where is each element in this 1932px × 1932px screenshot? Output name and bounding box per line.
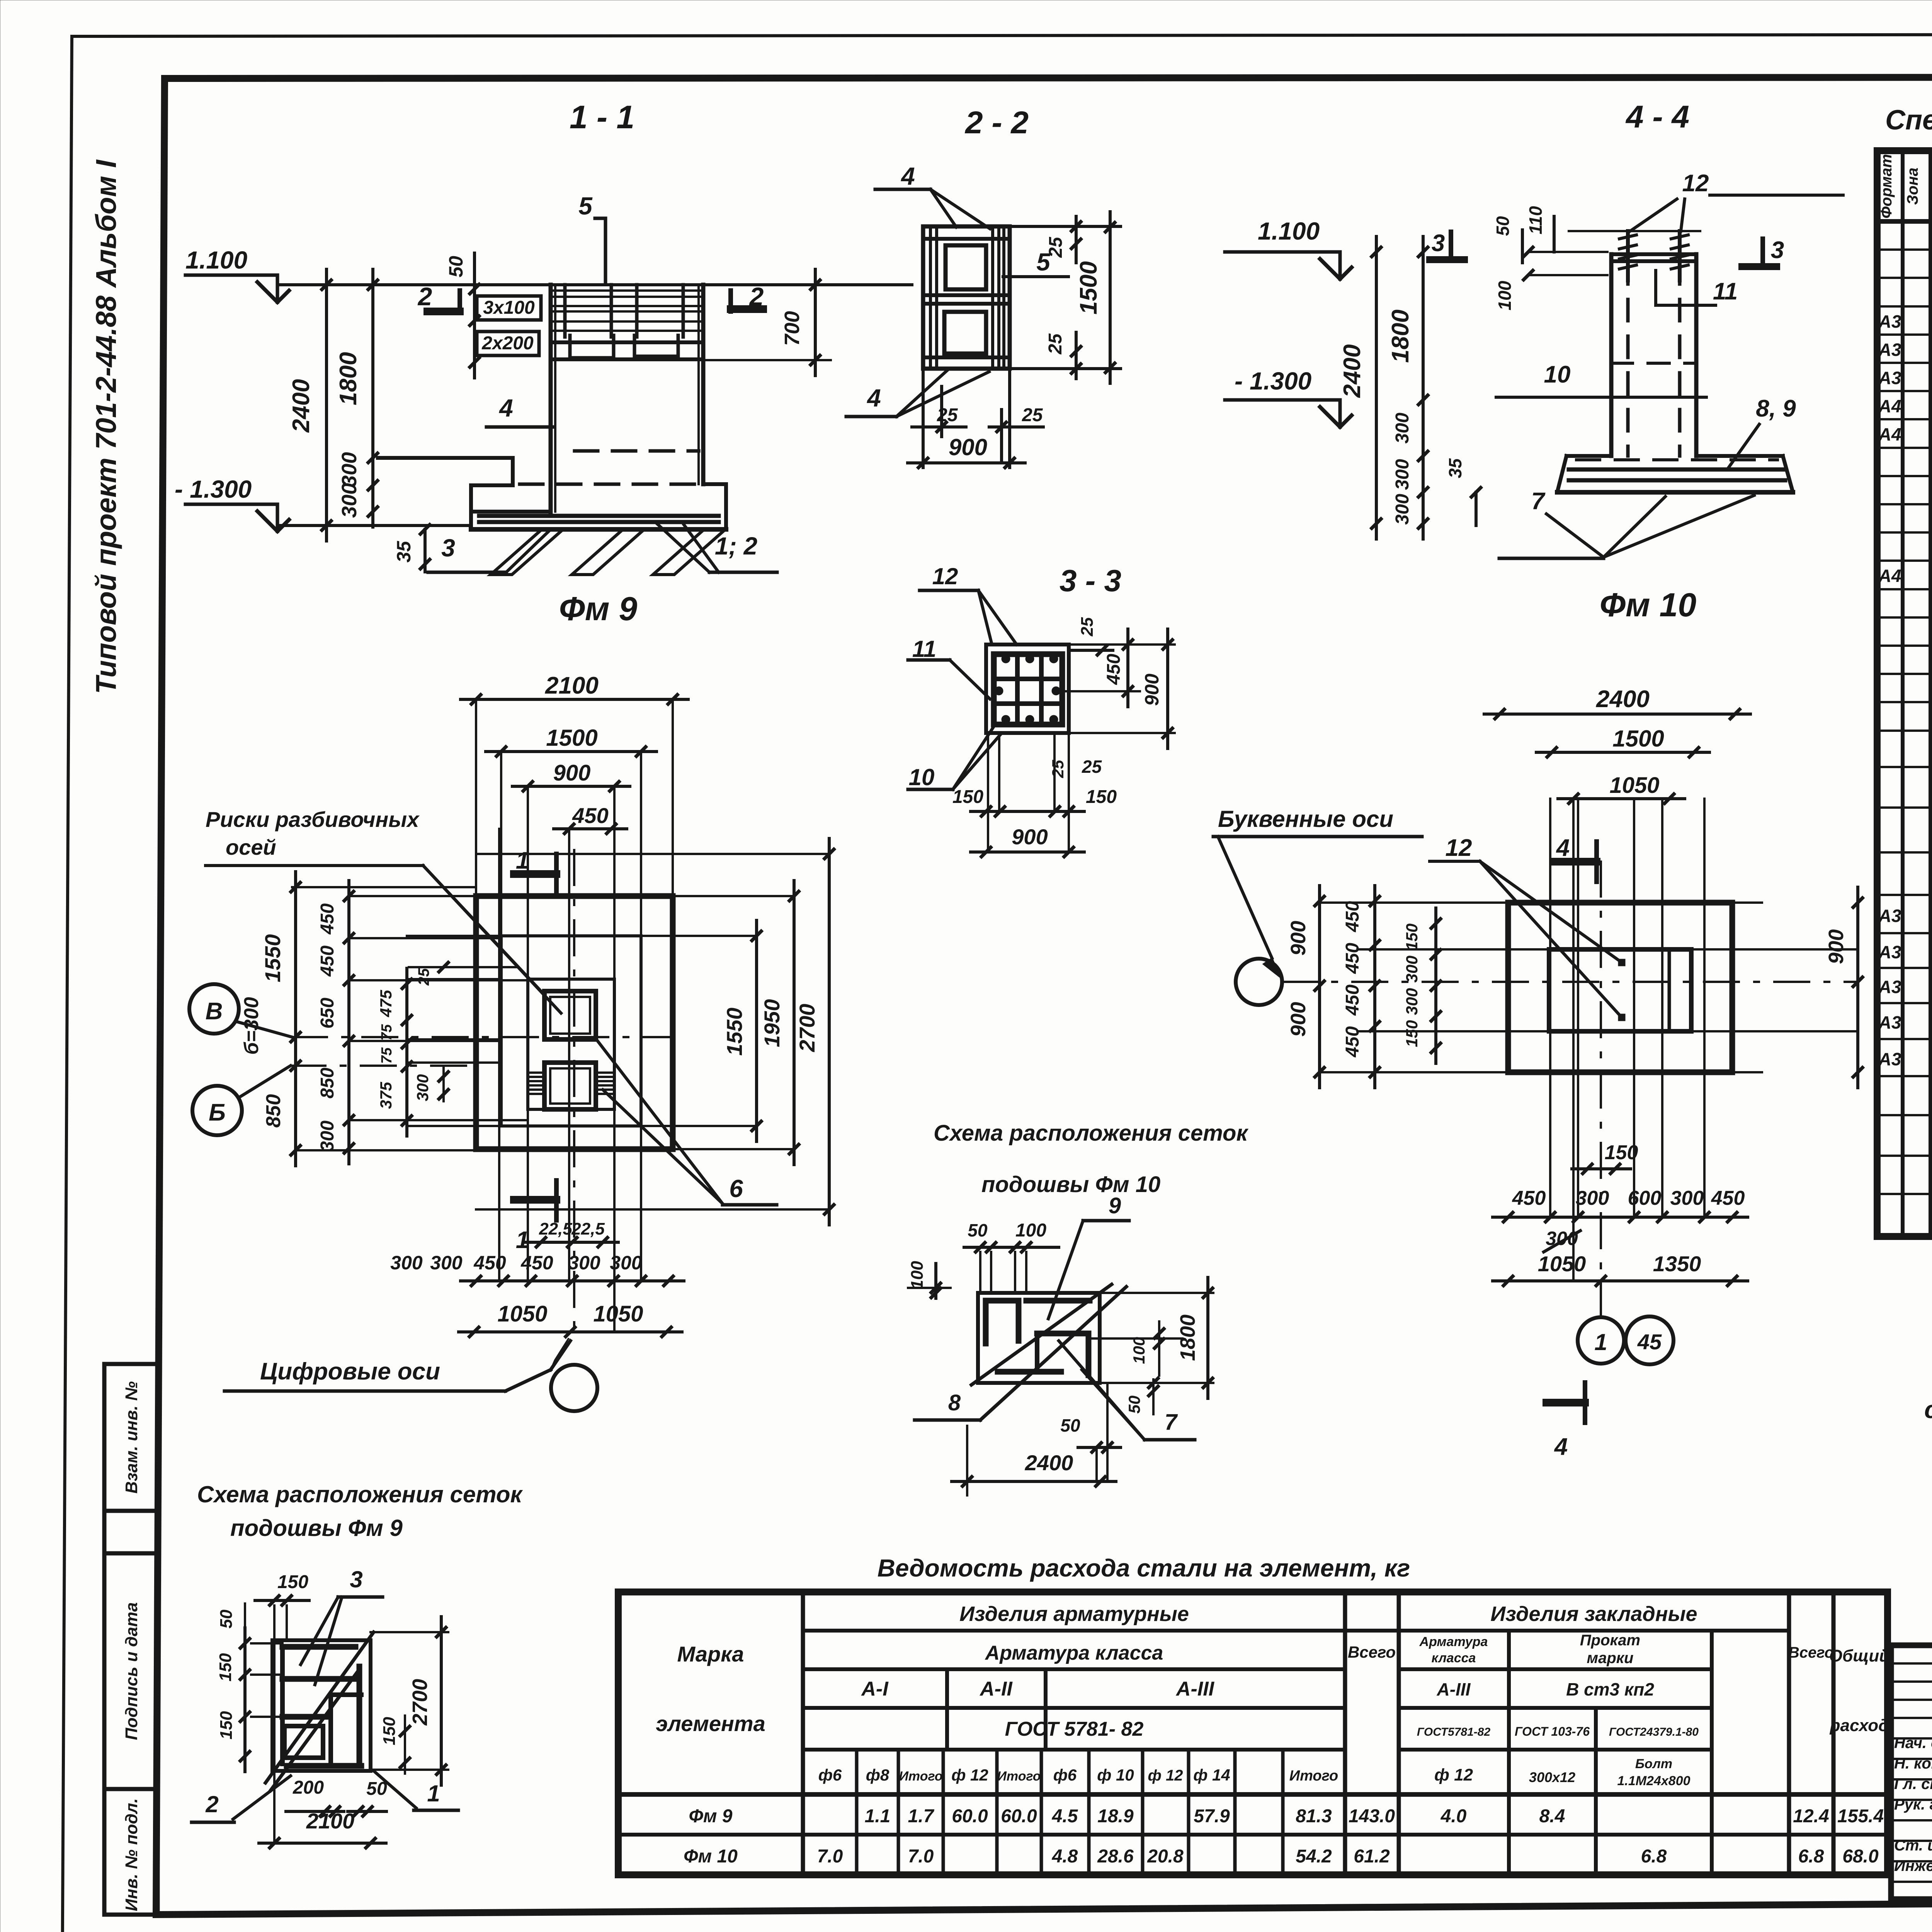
plan fm9 grid verticals (498, 829, 500, 1281)
plan fm10 left dims (1318, 886, 1321, 1088)
svg-text:1: 1 (1594, 1329, 1607, 1355)
svg-text:900: 900 (1825, 929, 1848, 964)
svg-text:1.7: 1.7 (908, 1806, 935, 1827)
svg-text:А3: А3 (1878, 942, 1901, 962)
svg-text:8: 8 (948, 1390, 961, 1415)
svg-text:Нач. отд.: Нач. отд. (1894, 1735, 1932, 1752)
svg-text:450: 450 (1711, 1187, 1745, 1209)
svg-text:300х12: 300х12 (1529, 1769, 1575, 1785)
svg-text:11: 11 (912, 636, 936, 662)
column 1-1 (549, 285, 553, 512)
plan fm9 column squares (544, 991, 596, 1039)
svg-text:ф6: ф6 (818, 1766, 842, 1784)
svg-text:150: 150 (1403, 923, 1421, 951)
dim 2400 4-4 (1375, 236, 1378, 539)
svg-text:7.0: 7.0 (817, 1846, 843, 1867)
spec table row lines (1877, 248, 1932, 251)
svg-text:12: 12 (932, 563, 958, 589)
svg-text:25: 25 (415, 968, 432, 986)
scheme fm9 diagonals (265, 1632, 374, 1783)
svg-text:1.100: 1.100 (1258, 217, 1320, 245)
svg-text:35: 35 (393, 541, 415, 563)
svg-text:850: 850 (262, 1094, 285, 1128)
svg-text:1050: 1050 (1609, 773, 1659, 798)
svg-text:54.2: 54.2 (1296, 1846, 1332, 1867)
svg-text:7.0: 7.0 (908, 1846, 934, 1867)
svg-text:Изделия закладные: Изделия закладные (1490, 1602, 1697, 1626)
svg-text:А3: А3 (1878, 368, 1901, 388)
hatch pads (528, 1071, 544, 1074)
svg-text:450: 450 (317, 946, 338, 977)
svg-text:1; 2: 1; 2 (715, 532, 757, 560)
svg-text:1350: 1350 (1653, 1252, 1701, 1276)
svg-text:375: 375 (377, 1082, 395, 1109)
svg-text:25: 25 (937, 405, 958, 425)
svg-text:25: 25 (1078, 617, 1097, 636)
svg-text:Фм 9: Фм 9 (559, 590, 638, 628)
svg-text:300: 300 (1392, 494, 1413, 525)
svg-text:68.0: 68.0 (1842, 1846, 1879, 1867)
axis circle 1 (1578, 1317, 1624, 1364)
svg-text:7: 7 (1531, 488, 1546, 515)
scheme fm9 mesh bars (282, 1644, 355, 1650)
svg-text:2100: 2100 (306, 1809, 355, 1833)
svg-text:150: 150 (380, 1717, 399, 1745)
svg-text:4: 4 (1556, 835, 1570, 861)
svg-text:4: 4 (866, 384, 881, 412)
svg-text:60.0: 60.0 (1001, 1806, 1037, 1827)
svg-text:50: 50 (1125, 1396, 1143, 1414)
svg-text:50: 50 (1060, 1415, 1080, 1435)
svg-text:А3: А3 (1878, 311, 1901, 332)
svg-text:12.4: 12.4 (1793, 1806, 1829, 1827)
plan fm9 grid horizontals (407, 935, 501, 937)
svg-text:155.4: 155.4 (1837, 1806, 1884, 1827)
svg-text:900: 900 (949, 434, 987, 460)
svg-text:100: 100 (1015, 1220, 1046, 1241)
mesh bars fm10 (983, 1301, 989, 1344)
anchor bolts 1-1 (563, 285, 567, 337)
svg-text:35: 35 (1445, 458, 1465, 478)
svg-text:11: 11 (1713, 278, 1738, 305)
plan fm10 outer footing (1508, 903, 1732, 1072)
svg-text:5: 5 (578, 192, 593, 220)
svg-text:ф 14: ф 14 (1193, 1766, 1230, 1784)
svg-text:450: 450 (520, 1252, 553, 1274)
svg-text:850: 850 (317, 1068, 338, 1099)
svg-text:В ст3 кп2: В ст3 кп2 (1566, 1679, 1654, 1699)
axis circle B (192, 1086, 242, 1135)
dims bottom 3-3 (998, 733, 1000, 811)
svg-text:61.2: 61.2 (1354, 1846, 1390, 1867)
svg-text:Буквенные оси: Буквенные оси (1218, 806, 1393, 832)
svg-text:900: 900 (1287, 1002, 1310, 1037)
svg-text:450: 450 (473, 1252, 506, 1274)
svg-text:8.4: 8.4 (1539, 1806, 1565, 1827)
svg-text:Взам. инв. №: Взам. инв. № (122, 1381, 141, 1494)
svg-text:150: 150 (1605, 1141, 1638, 1164)
svg-text:450: 450 (1342, 1026, 1363, 1058)
svg-text:А4: А4 (1878, 566, 1901, 586)
svg-text:4: 4 (1554, 1434, 1568, 1460)
svg-text:300: 300 (413, 1074, 432, 1101)
svg-text:Арматура класса: Арматура класса (985, 1642, 1163, 1664)
svg-text:200: 200 (293, 1777, 324, 1798)
svg-text:2700: 2700 (795, 1004, 819, 1053)
spec table frame (1877, 151, 1932, 1236)
svg-text:300: 300 (1403, 956, 1421, 983)
svg-text:1500: 1500 (1612, 726, 1664, 752)
svg-text:1050: 1050 (1538, 1252, 1586, 1276)
svg-text:Б: Б (209, 1099, 226, 1126)
svg-text:110: 110 (1526, 206, 1546, 235)
svg-text:450: 450 (1342, 943, 1363, 974)
svg-text:- 1.300: - 1.300 (175, 475, 252, 503)
svg-text:300: 300 (568, 1252, 600, 1274)
svg-text:4.8: 4.8 (1052, 1846, 1078, 1867)
svg-text:150: 150 (217, 1711, 236, 1740)
svg-text:12: 12 (1682, 170, 1709, 197)
svg-text:300: 300 (1546, 1228, 1578, 1249)
dim 2400 fm10scheme (952, 1480, 1116, 1483)
svg-text:60.0: 60.0 (952, 1806, 988, 1827)
svg-text:450: 450 (1342, 985, 1363, 1016)
svg-text:1550: 1550 (260, 934, 285, 983)
plan fm9 inner rects (501, 936, 641, 1126)
plan fm10 bottom dims (1572, 1167, 1631, 1170)
svg-text:600: 600 (1628, 1187, 1662, 1209)
svg-text:Рук. гр.: Рук. гр. (1894, 1796, 1932, 1813)
dims bottom 2-2 (922, 369, 925, 468)
svg-text:Фм 10: Фм 10 (1600, 587, 1696, 624)
svg-text:ГОСТ 103-76: ГОСТ 103-76 (1515, 1725, 1590, 1738)
svg-text:Ст. инж.: Ст. инж. (1894, 1837, 1932, 1854)
plan fm9 bottom dims (526, 1241, 618, 1244)
svg-text:12: 12 (1446, 835, 1472, 861)
svg-text:25: 25 (1082, 757, 1102, 777)
svg-text:1 - 1: 1 - 1 (570, 99, 634, 135)
svg-text:450: 450 (572, 803, 608, 828)
svg-text:ф 12: ф 12 (951, 1766, 988, 1784)
svg-text:3: 3 (350, 1566, 362, 1592)
svg-text:класса: класса (1432, 1651, 1476, 1665)
svg-text:22,5: 22,5 (539, 1219, 572, 1238)
3x100 2x200 boxes (473, 274, 476, 378)
svg-text:4: 4 (900, 162, 915, 190)
svg-text:10: 10 (1544, 361, 1571, 388)
svg-text:А-I: А-I (861, 1678, 889, 1700)
svg-text:22,5: 22,5 (571, 1219, 605, 1238)
svg-text:2400: 2400 (1339, 344, 1366, 398)
svg-text:650: 650 (317, 998, 338, 1029)
footing rebar 1-1 (479, 514, 719, 518)
svg-text:300: 300 (317, 1121, 338, 1151)
svg-text:8, 9: 8, 9 (1756, 395, 1796, 422)
svg-text:ГОСТ24379.1-80: ГОСТ24379.1-80 (1609, 1726, 1699, 1738)
svg-text:300: 300 (1403, 988, 1421, 1015)
svg-text:6.8: 6.8 (1798, 1846, 1824, 1867)
stamp boxes left margin (104, 1364, 158, 1915)
svg-text:900: 900 (1012, 825, 1048, 849)
dim 2700 fm9scheme (440, 1617, 443, 1785)
svg-text:подошвы Фм 9: подошвы Фм 9 (230, 1515, 403, 1541)
svg-text:элемента: элемента (656, 1711, 765, 1736)
cut mark 4 bottom (1546, 1399, 1585, 1406)
svg-text:А3: А3 (1878, 906, 1901, 926)
svg-text:Схема расположения сеток: Схема расположения сеток (934, 1121, 1248, 1146)
plan fm9 left dim chains (294, 872, 297, 1166)
svg-text:150: 150 (1403, 1020, 1421, 1047)
svg-text:300: 300 (1670, 1187, 1704, 1209)
svg-text:2400: 2400 (1025, 1451, 1073, 1475)
svg-text:2 - 2: 2 - 2 (964, 105, 1029, 140)
svg-text:А-III: А-III (1175, 1678, 1215, 1700)
mesh diagonals 8 (971, 1284, 1112, 1385)
svg-text:18.9: 18.9 (1097, 1806, 1134, 1827)
level baseline 1-1 (277, 283, 912, 286)
scheme fm9 mesh outline (272, 1640, 371, 1771)
svg-text:Инв. № подл.: Инв. № подл. (122, 1798, 141, 1911)
svg-text:1.1М24х800: 1.1М24х800 (1617, 1774, 1690, 1788)
svg-text:50: 50 (968, 1220, 988, 1240)
svg-text:ф8: ф8 (866, 1766, 889, 1784)
svg-text:1800: 1800 (335, 352, 362, 405)
cut mark 4 top (1554, 858, 1597, 866)
svg-text:25: 25 (1022, 405, 1043, 425)
svg-text:1: 1 (516, 1227, 529, 1253)
svg-text:Всего: Всего (1348, 1643, 1396, 1661)
svg-text:450: 450 (1342, 901, 1363, 932)
svg-text:300: 300 (430, 1252, 463, 1274)
svg-text:Фм 10: Фм 10 (684, 1846, 738, 1867)
svg-text:подошвы Фм 10: подошвы Фм 10 (981, 1172, 1160, 1197)
svg-text:150: 150 (1086, 787, 1117, 807)
svg-text:2700: 2700 (408, 1679, 432, 1726)
svg-text:100: 100 (1130, 1337, 1148, 1364)
svg-text:4.0: 4.0 (1440, 1806, 1467, 1827)
title block signatures grid (1891, 1645, 1932, 1899)
svg-text:6: 6 (729, 1175, 743, 1202)
svg-text:Типовой проект 701-2-44.88: Типовой проект 701-2-44.88 Альбом I (90, 159, 122, 694)
svg-text:1: 1 (427, 1781, 440, 1806)
svg-text:Изделия арматурные: Изделия арматурные (959, 1602, 1189, 1626)
svg-text:Фм 9: Фм 9 (689, 1806, 732, 1827)
svg-text:Итого: Итого (1289, 1768, 1338, 1784)
svg-text:3: 3 (1432, 230, 1445, 257)
svg-text:1.1: 1.1 (865, 1806, 891, 1827)
plan fm9 right dim chains (755, 920, 758, 1141)
svg-text:143.0: 143.0 (1349, 1806, 1395, 1827)
svg-text:300: 300 (1392, 413, 1413, 444)
svg-text:300: 300 (610, 1252, 642, 1274)
svg-text:А4: А4 (1878, 424, 1901, 444)
dim 1800 right (1100, 1292, 1213, 1294)
extension lines left fm9 (292, 886, 476, 888)
svg-text:1800: 1800 (1387, 310, 1414, 363)
svg-text:50: 50 (445, 256, 467, 277)
svg-text:А3: А3 (1878, 1012, 1901, 1032)
svg-text:Прокат: Прокат (1580, 1632, 1640, 1649)
dim 700 right (814, 269, 817, 376)
svg-text:Подпись и дата: Подпись и дата (122, 1602, 141, 1740)
svg-text:81.3: 81.3 (1296, 1806, 1332, 1827)
svg-text:марки: марки (1587, 1650, 1634, 1667)
cut mark 1 top plan fm9 (514, 870, 556, 878)
dim chain 2400 section 1-1 (325, 269, 328, 541)
svg-text:700: 700 (781, 311, 804, 346)
svg-text:475: 475 (377, 990, 395, 1017)
svg-text:300: 300 (338, 483, 361, 518)
svg-text:25: 25 (1045, 333, 1066, 355)
svg-text:3: 3 (1771, 237, 1784, 264)
svg-text:1550: 1550 (722, 1008, 747, 1056)
letter axis circle (1236, 959, 1282, 1005)
svg-text:300: 300 (338, 452, 361, 487)
svg-text:Спецификация на монолитные: Спецификация на монолитные фундаменты Фм… (1885, 105, 1932, 136)
svg-text:ГОСТ5781-82: ГОСТ5781-82 (1417, 1726, 1491, 1738)
svg-text:Цифровые оси: Цифровые оси (260, 1358, 440, 1385)
bolt hooks (570, 335, 614, 358)
svg-text:А4: А4 (1878, 396, 1901, 416)
svg-text:Н. контр.: Н. контр. (1894, 1755, 1932, 1772)
svg-text:А-II: А-II (979, 1678, 1013, 1700)
plan fm10 grid horizontals (1357, 948, 1858, 951)
vedomost frame (618, 1592, 1888, 1875)
svg-text:Марка: Марка (677, 1642, 744, 1666)
axis circle 45 (1626, 1316, 1673, 1364)
footing 4-4 (1566, 454, 1611, 458)
svg-text:20.8: 20.8 (1147, 1846, 1184, 1867)
svg-text:450: 450 (1512, 1187, 1546, 1209)
svg-text:ф 12: ф 12 (1434, 1765, 1473, 1784)
svg-text:ф6: ф6 (1053, 1766, 1077, 1784)
plan fm9 top dims (461, 698, 688, 701)
mesh marks under footing (491, 530, 562, 575)
dim chain 1800/300/300 (371, 269, 374, 527)
plan fm10 inner rect (1549, 949, 1691, 1031)
svg-text:900: 900 (1141, 673, 1163, 706)
svg-text:300: 300 (1392, 459, 1413, 490)
svg-text:Общий: Общий (1829, 1646, 1889, 1665)
svg-text:Инженер: Инженер (1894, 1857, 1932, 1874)
svg-text:Схема расположения сеток: Схема расположения сеток (197, 1481, 523, 1507)
svg-text:50: 50 (217, 1609, 236, 1628)
svg-text:1050: 1050 (497, 1301, 547, 1327)
svg-text:2х200: 2х200 (481, 333, 534, 354)
axis B line (291, 1065, 476, 1067)
svg-text:28.6: 28.6 (1097, 1846, 1134, 1867)
svg-text:3: 3 (441, 534, 455, 562)
svg-text:450: 450 (1104, 654, 1124, 685)
svg-text:900: 900 (553, 760, 591, 786)
svg-text:ф 12: ф 12 (1148, 1767, 1183, 1784)
right dim 900 fm10 (1856, 887, 1859, 1088)
axis circle V (189, 984, 239, 1034)
svg-text:100: 100 (908, 1261, 927, 1289)
svg-text:Гл. спец.: Гл. спец. (1894, 1776, 1932, 1793)
cut mark 1 bottom plan fm9 (514, 1196, 556, 1204)
svg-text:слой, указанный на чертеже.: слой, указанный на чертеже. (1924, 1396, 1932, 1423)
svg-text:45: 45 (1637, 1330, 1662, 1354)
svg-text:10: 10 (909, 764, 935, 790)
svg-text:150: 150 (952, 787, 983, 807)
svg-text:А3: А3 (1878, 977, 1901, 997)
axis V line (292, 1036, 673, 1038)
svg-text:б=300: б=300 (240, 997, 263, 1054)
svg-text:Итого: Итого (997, 1769, 1041, 1784)
svg-text:3 - 3: 3 - 3 (1060, 563, 1121, 598)
bolt cage 3-3 (994, 654, 1062, 724)
svg-text:4: 4 (498, 394, 513, 422)
svg-text:450: 450 (317, 903, 338, 935)
svg-text:2: 2 (417, 282, 432, 311)
svg-text:осей: осей (226, 835, 276, 859)
svg-text:Формат: Формат (1878, 154, 1895, 219)
svg-text:2400: 2400 (1596, 686, 1650, 713)
svg-text:3х100: 3х100 (483, 298, 535, 318)
hidden edges dashed 1-1 (575, 449, 699, 453)
svg-text:2: 2 (205, 1791, 218, 1817)
svg-text:Болт: Болт (1635, 1757, 1672, 1771)
svg-text:Зона: Зона (1904, 168, 1921, 205)
dims 1800/300x3 (1422, 236, 1425, 539)
svg-text:900: 900 (1287, 921, 1310, 956)
svg-text:ф 10: ф 10 (1097, 1766, 1134, 1784)
anchor bolts 4-4 (1626, 231, 1630, 281)
svg-text:А-III: А-III (1437, 1679, 1471, 1699)
footing 1-1 (378, 456, 513, 460)
svg-text:4.5: 4.5 (1052, 1806, 1078, 1827)
svg-text:1500: 1500 (546, 725, 597, 751)
bolt cage horizontals 1-1 (551, 289, 703, 292)
svg-text:Риски разбивочных: Риски разбивочных (206, 807, 420, 832)
column cage 2-2 (923, 226, 1010, 369)
svg-text:В: В (206, 998, 223, 1025)
svg-text:1050: 1050 (593, 1301, 643, 1327)
svg-text:А3: А3 (1878, 1049, 1901, 1069)
svg-text:1.100: 1.100 (185, 246, 247, 274)
svg-text:2100: 2100 (545, 672, 599, 699)
svg-text:57.9: 57.9 (1194, 1806, 1230, 1827)
dims right 2-2 (1010, 225, 1121, 228)
svg-text:2400: 2400 (288, 379, 315, 433)
svg-text:А3: А3 (1878, 340, 1901, 360)
svg-text:75: 75 (379, 1024, 395, 1041)
svg-text:Ведомость расхода стали: Ведомость расхода стали на элемент, кг (878, 1554, 1410, 1582)
column 4-4 (1609, 254, 1614, 456)
scheme fm10 mesh outline (978, 1293, 1100, 1383)
svg-text:5: 5 (1036, 248, 1051, 276)
svg-text:6.8: 6.8 (1641, 1846, 1667, 1867)
svg-text:ГОСТ 5781- 82: ГОСТ 5781- 82 (1005, 1718, 1144, 1740)
plan fm10 top dims (1484, 713, 1750, 716)
svg-text:50: 50 (1493, 216, 1513, 236)
svg-text:расход: расход (1830, 1716, 1889, 1735)
svg-text:- 1.300: - 1.300 (1235, 367, 1311, 395)
svg-text:Арматура: Арматура (1419, 1634, 1488, 1649)
svg-text:4 - 4: 4 - 4 (1625, 99, 1689, 134)
plan fm9 outer footing (476, 896, 673, 1149)
svg-text:150: 150 (216, 1653, 235, 1682)
svg-text:150: 150 (277, 1572, 308, 1592)
svg-text:9: 9 (1109, 1193, 1121, 1218)
svg-text:Итого: Итого (899, 1769, 942, 1784)
svg-text:300: 300 (390, 1252, 423, 1274)
svg-text:7: 7 (1165, 1410, 1178, 1435)
column plan 3-3 (986, 645, 1069, 733)
svg-text:1950: 1950 (760, 999, 784, 1048)
svg-text:50: 50 (366, 1779, 387, 1799)
